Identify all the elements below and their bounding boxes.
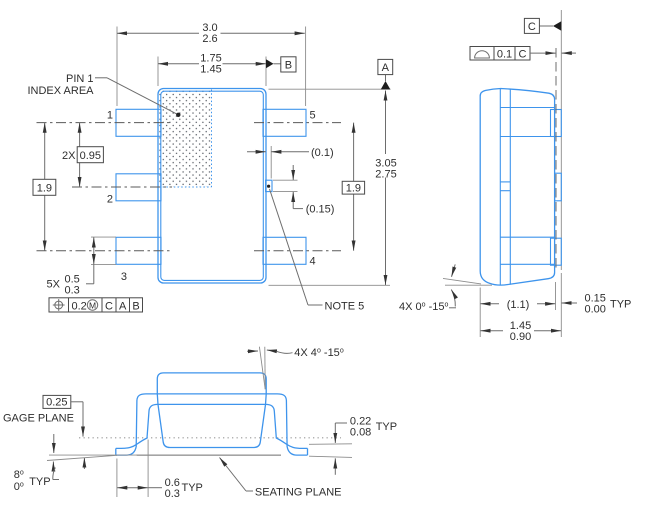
side view body outline [480, 89, 554, 286]
svg-text:PIN 1: PIN 1 [66, 73, 94, 85]
svg-text:1.9: 1.9 [346, 183, 361, 195]
svg-text:0.08: 0.08 [350, 427, 371, 439]
side view inner vertical line 2 [509, 89, 511, 285]
svg-text:4: 4 [310, 256, 316, 268]
svg-text:M: M [89, 300, 96, 310]
centerline row 3 left [37, 250, 171, 252]
dimension (0.1) [247, 146, 334, 179]
svg-text:2.75: 2.75 [375, 169, 396, 181]
seating plane line [137, 454, 282, 456]
svg-text:(0.1): (0.1) [311, 147, 334, 159]
dimension 1.75/1.45 body width + datum B [158, 53, 296, 87]
svg-text:0.3: 0.3 [165, 488, 180, 500]
datum A triangle [381, 81, 391, 89]
svg-text:B: B [132, 300, 139, 312]
svg-text:2: 2 [107, 194, 113, 206]
datum A box [378, 59, 393, 74]
position symbol [55, 301, 63, 309]
side lead row1 band [500, 108, 561, 137]
svg-text:C: C [519, 48, 527, 60]
gage plane 0.25 callout [3, 395, 84, 469]
svg-text:0.3: 0.3 [65, 285, 80, 297]
centerline row 3 right [254, 250, 341, 252]
modifier circle M [87, 300, 97, 310]
pin 5 [263, 109, 306, 136]
side view inner vertical line 1 [499, 89, 501, 286]
svg-text:0.00: 0.00 [585, 304, 606, 316]
svg-text:(1.1): (1.1) [507, 299, 530, 311]
feature control frame position 0.2 M C A B [49, 298, 143, 313]
profile of surface symbol [475, 51, 490, 58]
svg-text:0.90: 0.90 [510, 331, 531, 343]
svg-text:INDEX AREA: INDEX AREA [27, 85, 94, 97]
lead band left outer curve [116, 394, 308, 455]
svg-text:1.9: 1.9 [37, 183, 52, 195]
datum C plane solid line [560, 10, 562, 270]
NOTE 5 leader [270, 189, 365, 313]
mold gate bump NOTE5 feature [266, 180, 272, 191]
gage plane dotted line [79, 437, 341, 439]
lead band inner curve [116, 404, 308, 448]
4X 4-15 angle callout [247, 347, 344, 390]
svg-text:1: 1 [107, 110, 113, 122]
svg-text:0.2: 0.2 [72, 300, 87, 312]
svg-text:NOTE 5: NOTE 5 [325, 301, 365, 313]
svg-text:C: C [528, 21, 536, 33]
svg-text:A: A [119, 300, 127, 312]
dimension 0.22/0.08 TYP [309, 416, 397, 475]
right foot tip [307, 448, 309, 455]
svg-text:0.1: 0.1 [497, 48, 512, 60]
dimension 3.05/2.75 + datum A [269, 59, 397, 285]
pin 1 [116, 109, 161, 136]
pin 2 [116, 174, 161, 201]
pin 1 index hatch area [159, 90, 212, 188]
svg-text:5: 5 [310, 110, 316, 122]
centerline row 1 left [37, 122, 173, 124]
svg-text:(0.15): (0.15) [306, 204, 335, 216]
datum C triangle and box [524, 18, 561, 33]
lead tip dashed line [555, 48, 557, 270]
dimension (0.15) [273, 165, 334, 216]
seating plane label leader [220, 458, 342, 499]
side view 4X 0-15 angle callout [399, 264, 492, 313]
left foot tip [115, 448, 117, 455]
package body outline outer [158, 89, 266, 284]
svg-text:SEATING PLANE: SEATING PLANE [255, 487, 342, 499]
FCF profile 0.1 C [470, 47, 576, 61]
svg-text:0.95: 0.95 [80, 150, 101, 162]
svg-text:2.6: 2.6 [202, 33, 217, 45]
svg-text:B: B [285, 59, 292, 71]
pin 4 [263, 237, 306, 264]
package body outline inner [161, 91, 263, 280]
dimension (1.1) [480, 282, 555, 311]
dimension 0.6/0.3 TYP [117, 440, 203, 501]
centerline row 2 [72, 186, 172, 188]
dimension 0.15/0.00 TYP [562, 293, 632, 316]
svg-text:C: C [105, 300, 113, 312]
datum B triangle [266, 59, 274, 68]
8/0 TYP angle callout [14, 434, 137, 493]
svg-text:TYP: TYP [610, 299, 631, 311]
svg-text:3: 3 [121, 271, 127, 283]
dimension 2X 0.95 [62, 123, 103, 187]
dimension 3.0/2.6 overall width [117, 22, 306, 106]
svg-text:TYP: TYP [29, 476, 50, 488]
side lead row3 band [500, 237, 561, 265]
dimension 1.9 right [342, 123, 364, 251]
svg-text:1.45: 1.45 [200, 64, 221, 76]
svg-text:0.25: 0.25 [46, 397, 67, 409]
dimension 1.9 left [33, 123, 56, 251]
centerline row 1 right [254, 122, 341, 124]
svg-text:A: A [382, 62, 390, 74]
dimension 5X 0.5/0.3 [47, 237, 117, 296]
dimension 1.45/0.90 [480, 273, 561, 343]
svg-text:GAGE PLANE: GAGE PLANE [3, 413, 74, 425]
svg-text:TYP: TYP [376, 421, 397, 433]
pin 3 [116, 237, 161, 264]
PIN 1 INDEX AREA label [27, 73, 180, 117]
datum B box [281, 57, 296, 72]
body outline bottom view [157, 373, 266, 448]
svg-text:TYP: TYP [182, 482, 203, 494]
svg-text:2X: 2X [62, 150, 76, 162]
side lead row2 notch [500, 173, 561, 201]
svg-text:5X: 5X [47, 279, 61, 291]
